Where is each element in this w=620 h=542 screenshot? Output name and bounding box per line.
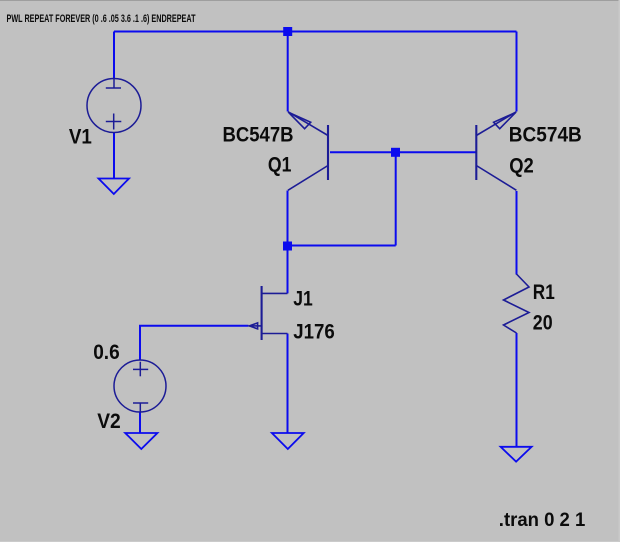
ground below V2 [125, 433, 157, 449]
node junction base bus [391, 148, 400, 157]
wire V1 bottom lead [113, 133, 115, 179]
svg-text:0.6: 0.6 [93, 341, 120, 364]
wire base bus Q1-Q2 [330, 151, 476, 153]
transistor Q2 (NPN mirrored, bar on left, emitter up-right) [476, 112, 516, 191]
wire R1 to ground [516, 333, 518, 447]
ground below V1 [99, 179, 130, 195]
svg-text:.tran 0 2 1: .tran 0 2 1 [499, 509, 586, 531]
svg-text:J176: J176 [293, 321, 335, 344]
node junction collector branch [283, 242, 292, 251]
svg-text:V1: V1 [69, 126, 92, 149]
svg-text:20: 20 [533, 312, 553, 335]
wire Q2 collector to R1 [516, 191, 518, 275]
wire V1 top lead [113, 32, 115, 80]
wire feedback vertical [395, 152, 397, 245]
svg-text:BC547B: BC547B [223, 124, 294, 147]
node junction top rail [283, 27, 292, 36]
svg-text:BC574B: BC574B [509, 124, 582, 147]
wire V2 bottom lead [139, 412, 141, 433]
ground below R1 [501, 447, 532, 462]
svg-text:Q2: Q2 [509, 155, 534, 178]
svg-text:J1: J1 [293, 288, 313, 311]
voltage source V1 body [87, 79, 141, 133]
wire top rail [114, 31, 517, 33]
wire J1 source down [287, 334, 289, 434]
ground below J1 source [272, 433, 304, 449]
svg-text:V2: V2 [97, 410, 121, 433]
svg-text:PWL REPEAT FOREVER (0 .6 .05 3: PWL REPEAT FOREVER (0 .6 .05 3.6 .1 .6) … [7, 13, 196, 25]
svg-text:R1: R1 [533, 281, 555, 304]
wire Q1 emitter drop [287, 31, 289, 112]
JFET J1 (P-channel, gate arrow pointing left) [249, 286, 288, 340]
voltage source V2 body [114, 360, 166, 412]
wire Q2 emitter drop [516, 32, 518, 112]
svg-text:Q1: Q1 [268, 153, 292, 176]
wire Q1 collector to J1 drain [287, 191, 289, 294]
transistor Q1 (NPN, bar on right, emitter up-left) [288, 112, 328, 191]
resistor R1 zigzag [504, 274, 530, 333]
wire J1 gate to V2 [140, 326, 249, 361]
wire feedback horizontal [288, 245, 396, 247]
